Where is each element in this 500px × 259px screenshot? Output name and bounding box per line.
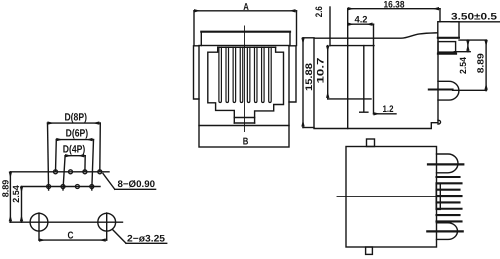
- side view: shield tab 2: [438, 42, 456, 54]
- contact slot 7: [262, 47, 265, 102]
- side view: interior vertical wall 2: [373, 24, 375, 114]
- side view: dimension 16.38: [348, 9, 440, 22]
- contact slot 8: [269, 47, 272, 102]
- back view: pin 3: [437, 189, 460, 191]
- back view: pin 5: [437, 201, 460, 203]
- svg-text:C: C: [68, 231, 74, 242]
- svg-text:8.89: 8.89: [476, 53, 486, 73]
- footprint: pin hole top 4: [98, 170, 102, 174]
- side view: interior horizontal shelf: [330, 45, 374, 47]
- side view: dimension 2.6: [329, 7, 331, 46]
- svg-text:16.38: 16.38: [384, 0, 405, 10]
- footprint: mounting holes centerline: [10, 221, 123, 223]
- footprint: pin hole bottom 1: [47, 185, 51, 189]
- back view: pin 4: [437, 195, 462, 197]
- side view: dimension 1.2: [360, 112, 396, 114]
- contact slot 5: [247, 47, 250, 102]
- contact slot 6: [254, 47, 257, 102]
- back view: bottom tab: [366, 247, 373, 254]
- back view: body rectangle: [346, 147, 437, 248]
- svg-text:10.7: 10.7: [315, 58, 326, 84]
- footprint: dimension D(8P): [48, 123, 101, 190]
- back view: pin 7: [437, 214, 460, 216]
- contact slot 1: [219, 47, 222, 102]
- front view bottom strip line: [199, 125, 289, 127]
- side view: bottom corner bump: [438, 120, 441, 124]
- side view: round shield post: [429, 81, 459, 100]
- front view: dimension A line: [194, 11, 297, 46]
- footprint: leader 8-Ø0.90: [103, 174, 156, 190]
- side view: interior horizontal floor: [328, 98, 371, 100]
- contact slot 3: [233, 47, 236, 102]
- footprint: mounting hole right: [98, 213, 116, 240]
- side view: dimension 3.50±0.5: [451, 21, 500, 23]
- svg-text:8−Ø0.90: 8−Ø0.90: [118, 179, 156, 190]
- side view: body outline: [314, 38, 438, 128]
- svg-text:1.2: 1.2: [383, 104, 394, 115]
- contact slot 2: [226, 47, 229, 102]
- side view: dimension 8.89: [453, 40, 487, 91]
- latch slot inner line: [234, 117, 254, 119]
- front view body outline: [199, 46, 289, 148]
- svg-text:2.6: 2.6: [314, 6, 325, 17]
- side view: wavy top edge: [348, 33, 438, 38]
- svg-text:2.54: 2.54: [11, 185, 21, 203]
- footprint: top pin row line: [10, 171, 109, 173]
- jack opening top edge: [218, 46, 276, 48]
- front view left ear: [194, 46, 200, 99]
- footprint: bottom pin row line: [22, 186, 101, 188]
- footprint: pin hole top 1: [54, 170, 58, 174]
- svg-text:D(6P): D(6P): [66, 127, 89, 139]
- footprint: pin hole top 3: [83, 170, 87, 174]
- footprint: pin hole bottom 2: [61, 185, 65, 189]
- svg-text:4.2: 4.2: [355, 14, 368, 25]
- side view: dimension 10.7: [327, 46, 329, 99]
- side view: interior vertical wall: [347, 9, 349, 129]
- side view: dimension 15.88: [303, 38, 314, 128]
- svg-text:D(4P): D(4P): [63, 144, 86, 156]
- svg-text:B: B: [243, 136, 249, 147]
- footprint: dimension 2.54: [21, 187, 23, 223]
- footprint: pin hole bottom 4: [90, 185, 94, 189]
- svg-text:D(8P): D(8P): [64, 112, 87, 124]
- svg-text:3.50±0.5: 3.50±0.5: [451, 12, 498, 23]
- back view: top tab: [367, 139, 375, 147]
- front view right ear: [289, 46, 296, 102]
- back view: top round post: [428, 154, 463, 173]
- footprint: dimension D(4P): [63, 156, 85, 190]
- back view: horizontal centerline: [337, 195, 441, 197]
- front view vertical centerline: [244, 26, 246, 132]
- back view: bottom round post: [427, 223, 462, 240]
- back view: pin 6: [437, 208, 462, 210]
- footprint: leader 2-ø3.25: [113, 230, 167, 244]
- svg-text:A: A: [243, 2, 249, 13]
- side view: dimension 4.2: [348, 23, 374, 25]
- footprint: pin hole top 2: [69, 170, 73, 174]
- jack opening left stepped wall: [208, 47, 235, 123]
- latch slot bottom: [234, 122, 254, 124]
- back view: pin 8: [437, 220, 462, 222]
- footprint: mounting hole left: [30, 213, 48, 240]
- svg-text:2−ø3.25: 2−ø3.25: [127, 234, 166, 245]
- side view: dimension 2.54: [454, 40, 486, 52]
- footprint: dimension C: [39, 239, 107, 241]
- svg-text:2.54: 2.54: [458, 57, 468, 74]
- footprint: dimension D(6P): [56, 140, 94, 190]
- footprint: dimension 8.89: [9, 172, 11, 222]
- back view: pin header bar: [436, 184, 440, 210]
- side view: interior vertical wall 3: [363, 46, 365, 112]
- side view: shield tab top (3.50): [438, 22, 459, 38]
- jack opening right stepped wall: [255, 47, 284, 123]
- footprint: pin hole bottom 3: [75, 185, 79, 189]
- contact slot 4: [240, 47, 243, 102]
- front view top cap: [201, 32, 290, 46]
- back view: pin 2: [437, 182, 462, 184]
- back view: pin 1: [437, 176, 460, 178]
- svg-text:8.89: 8.89: [0, 180, 10, 198]
